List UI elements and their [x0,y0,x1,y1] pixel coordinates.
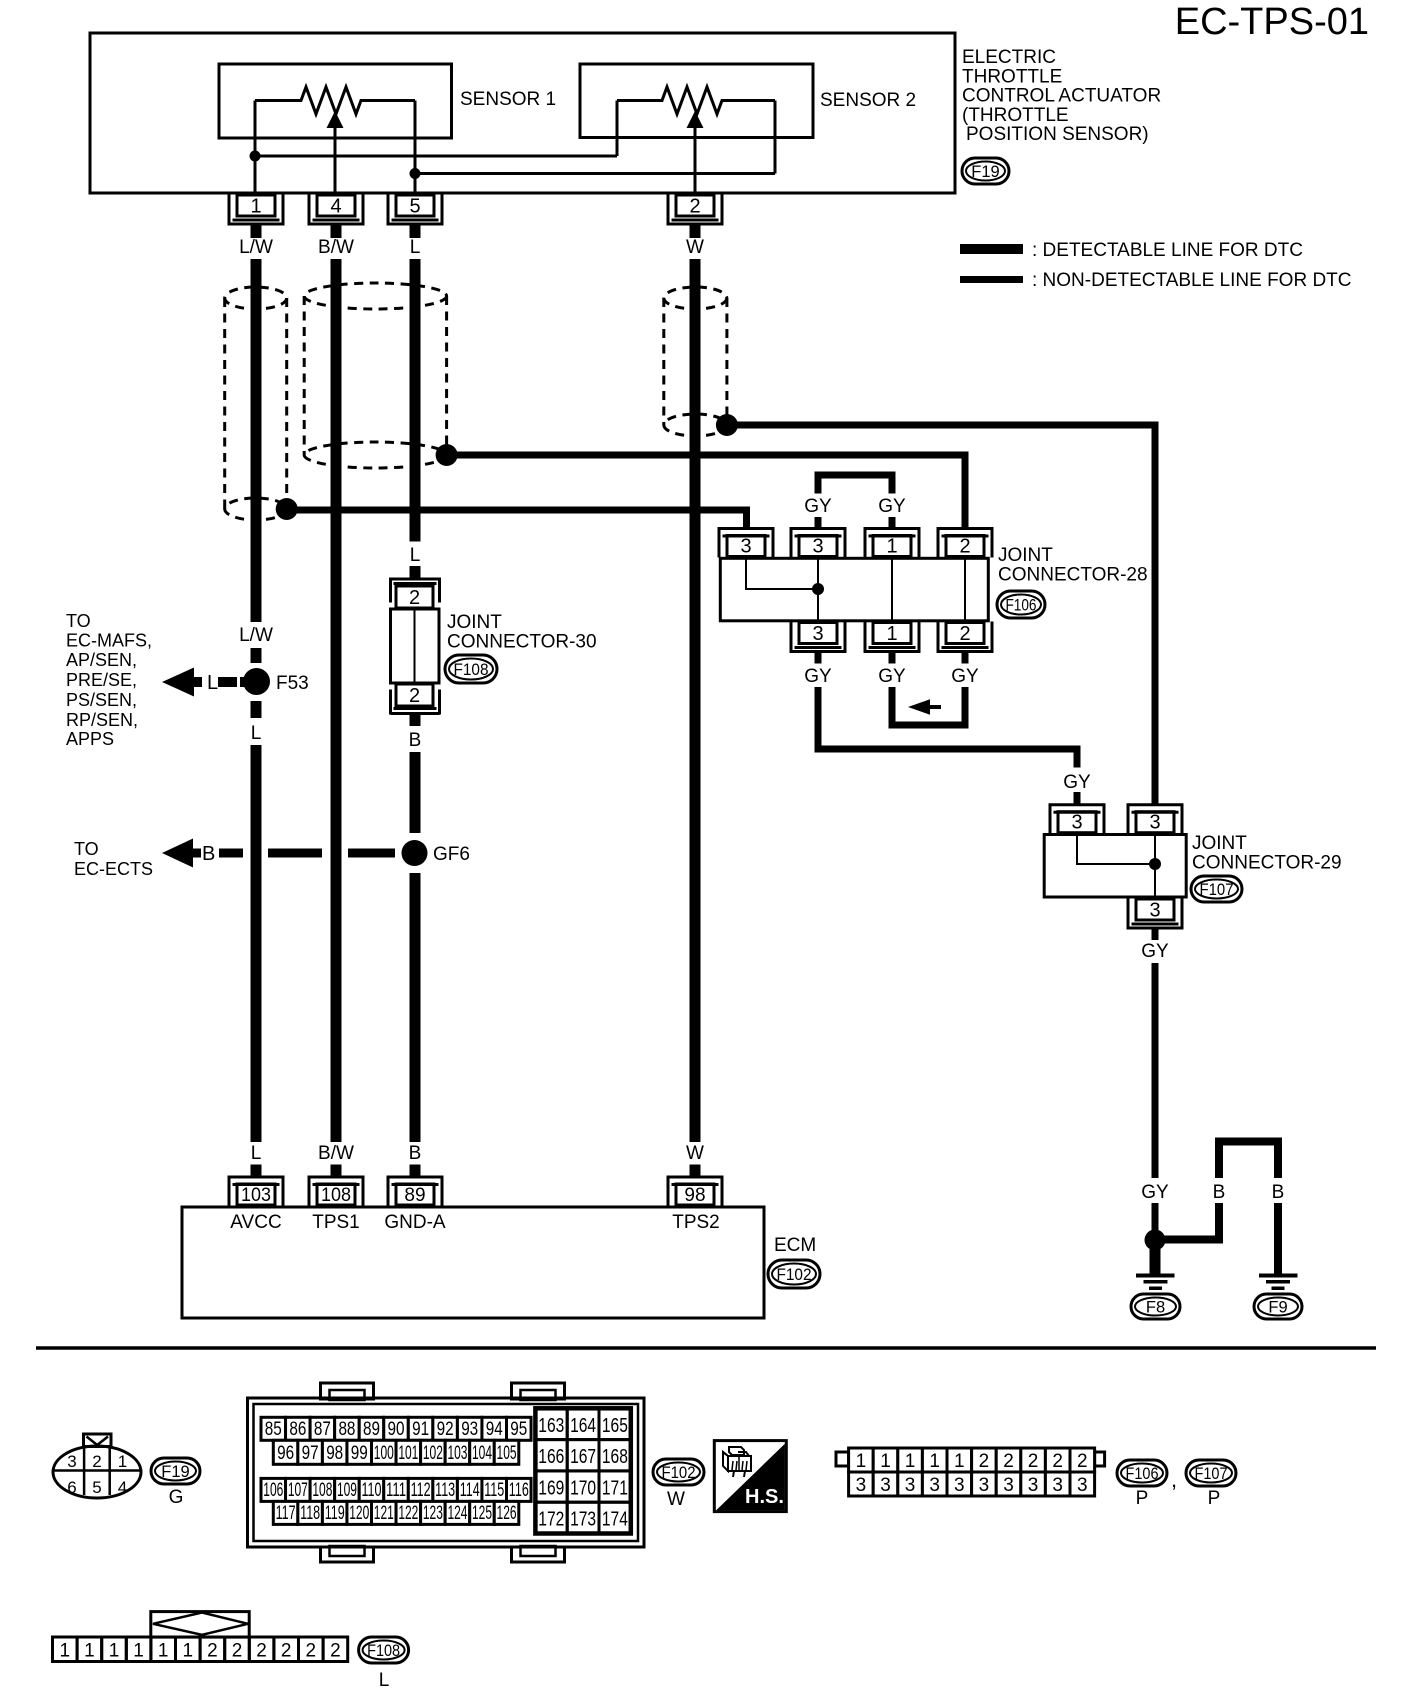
node shield1 drain [276,498,298,520]
wire GY JC-29 to ground label [1152,963,1159,1178]
svg-text:3: 3 [812,536,823,558]
stub JC-28 bottom pin2 [962,651,969,664]
connector badge F108 [445,655,497,683]
svg-text:1: 1 [158,1641,169,1662]
svg-text:2: 2 [689,196,700,218]
svg-text:170: 170 [570,1477,596,1499]
svg-text:3: 3 [856,1475,867,1496]
svg-text:GY: GY [878,496,906,517]
connector badge F102 at ECM [768,1260,820,1288]
connector badge F107 [1191,876,1242,902]
svg-text:85: 85 [265,1419,282,1440]
svg-text:91: 91 [412,1419,429,1440]
svg-text:GY: GY [804,666,832,687]
svg-text:W: W [686,237,704,258]
svg-text:3: 3 [880,1475,891,1496]
svg-text:GY: GY [1141,1182,1169,1203]
pin 2 (actuator) [676,195,714,216]
svg-text:165: 165 [602,1415,628,1437]
svg-text:3: 3 [1052,1475,1063,1496]
shield cylinder 2 (B/W and L wires) [304,283,446,309]
ECM pin 108 [317,1184,355,1205]
svg-text:F102: F102 [662,1464,696,1482]
svg-text:3: 3 [954,1475,965,1496]
svg-text:1: 1 [905,1451,916,1472]
JC-28 top pin 3 [799,536,837,557]
svg-text:B: B [409,730,422,751]
svg-text:2: 2 [1028,1451,1039,1472]
svg-text:118: 118 [300,1503,320,1524]
badge F19 bottom [151,1458,200,1484]
svg-text:103: 103 [241,1185,271,1206]
GY loop below JC-28 pins 1-2 [892,687,965,725]
sensor2 right lead wire [774,101,777,174]
ECM pin 103 [237,1184,275,1205]
node ground junction [1145,1230,1166,1251]
wire shield1 drain to JC-28 pin3 [287,510,747,529]
JC-28 top pin 3 (shield1) [727,536,765,557]
pin 5 (actuator) [396,195,434,216]
svg-text:174: 174 [602,1509,628,1531]
svg-text:87: 87 [314,1419,331,1440]
svg-text:2: 2 [979,1451,990,1472]
sensor 1 box [219,64,452,138]
badge F102 bottom [653,1459,704,1485]
wire sensor1-pin1 to sensor2 left [255,155,617,158]
svg-text:F107: F107 [1200,881,1234,899]
svg-text:L: L [410,237,421,258]
svg-text:171: 171 [602,1477,628,1499]
svg-text:86: 86 [289,1419,306,1440]
svg-text:H.S.: H.S. [745,1486,784,1508]
wire B/W pin4 to ECM [331,259,342,1142]
svg-text:166: 166 [538,1446,564,1468]
svg-text:JOINT: JOINT [447,612,502,633]
connector face F102 (ECM, W) [248,1398,645,1547]
resistor R-sensor2 [617,87,775,114]
svg-text:EC-TPS-01: EC-TPS-01 [1175,1,1369,43]
svg-text:2: 2 [1003,1451,1014,1472]
svg-text:105: 105 [497,1443,517,1464]
svg-text:2: 2 [306,1641,317,1662]
svg-text:GND-A: GND-A [384,1212,446,1233]
svg-text:124: 124 [447,1503,467,1524]
svg-text:115: 115 [484,1480,504,1501]
electric throttle control actuator box U1 (F19) [90,33,955,193]
svg-text:98: 98 [326,1443,343,1464]
svg-text:1: 1 [84,1641,95,1662]
svg-text:94: 94 [486,1419,503,1440]
pin 4 (actuator) [317,195,355,216]
JC-30 bottom pin 2 [396,684,433,706]
svg-text:167: 167 [570,1446,596,1468]
svg-text:97: 97 [302,1443,319,1464]
node GF6 [402,840,428,866]
wire L to ECM [251,745,262,1142]
JC-29 right pin 3 [1136,812,1174,833]
svg-text:2: 2 [1052,1451,1063,1472]
svg-text:SENSOR 2: SENSOR 2 [820,90,916,111]
svg-text:3: 3 [979,1475,990,1496]
svg-text:163: 163 [538,1415,564,1437]
stub JC-28 bottom pin1 [889,651,896,664]
legend detectable bar [960,244,1023,254]
svg-text:F106: F106 [1126,1465,1159,1483]
ground badge F9 [1254,1294,1302,1319]
svg-text:3: 3 [1003,1475,1014,1496]
ground F8 [1136,1274,1175,1278]
node sensor1 pin1 junction [250,151,261,162]
node F53 [243,668,270,695]
svg-text:1: 1 [118,1452,127,1471]
svg-text:103: 103 [447,1443,467,1464]
sensor1 left lead wire [254,101,257,196]
svg-text:P: P [1208,1488,1221,1509]
svg-text:F106: F106 [1006,596,1037,614]
svg-text:1: 1 [183,1641,194,1662]
svg-text:RP/SEN,: RP/SEN, [66,710,138,730]
stub JC-29 left pin [1074,792,1081,805]
shield cylinder 1 (L/W wire) [225,287,287,309]
node JC-28 internal joint [812,583,824,595]
svg-text:126: 126 [497,1503,517,1524]
wire L/W below label [251,648,262,663]
svg-text:1: 1 [250,196,261,218]
svg-text:2: 2 [281,1641,292,1662]
svg-text:119: 119 [325,1503,345,1524]
svg-text:99: 99 [351,1443,368,1464]
svg-text:122: 122 [398,1503,418,1524]
svg-text:3: 3 [1077,1475,1088,1496]
svg-text:L: L [379,1670,390,1691]
wire JC-28 pin3 to JC-29 left pin [818,687,1077,768]
svg-text:108: 108 [321,1185,351,1206]
svg-text:L: L [410,545,421,566]
node shield2 drain [436,444,458,466]
svg-text:90: 90 [388,1419,405,1440]
svg-text:113: 113 [435,1480,455,1501]
svg-text:F19: F19 [971,163,999,181]
svg-text:ECM: ECM [774,1235,816,1256]
wire GY to ground node [1152,1203,1159,1233]
svg-text:5: 5 [409,196,420,218]
svg-text:EC-MAFS,: EC-MAFS, [66,631,152,651]
svg-text:96: 96 [277,1443,294,1464]
svg-text:123: 123 [423,1503,443,1524]
JC-30 top pin 2 [396,586,433,608]
JC-28 bottom pin 3 [799,623,837,644]
svg-text:P: P [1136,1488,1149,1509]
svg-text:109: 109 [337,1480,357,1501]
stub JC-28 bottom pin3 [815,651,822,664]
svg-text:JOINT: JOINT [1192,833,1247,854]
svg-text:114: 114 [460,1480,480,1501]
svg-text:169: 169 [538,1477,564,1499]
svg-text:EC-ECTS: EC-ECTS [74,859,153,879]
wire W pin2 to ECM [690,259,701,1142]
svg-text:PS/SEN,: PS/SEN, [66,690,137,710]
wire shield2 drain to JC-28 pin2 [447,455,965,529]
JC-28 body (F106) [720,558,988,621]
svg-text:TO: TO [74,839,99,859]
svg-text:POSITION SENSOR): POSITION SENSOR) [966,124,1149,145]
JC-30 body (F108) [391,609,440,683]
node JC-29 internal joint [1149,858,1161,870]
svg-text:B/W: B/W [318,237,354,258]
svg-text:2: 2 [1077,1451,1088,1472]
arrow to EC-MAFS etc [162,668,194,697]
wire sensor1-pin5 to sensor2 right [415,172,775,175]
node shield3 drain [716,414,738,436]
svg-text:F53: F53 [276,673,309,694]
svg-text:2: 2 [959,623,970,645]
JC-29 body (F107) [1044,835,1186,898]
badge F106 bottom [1117,1460,1167,1486]
shield cylinder 3 (W wire) [664,287,727,309]
svg-text:172: 172 [538,1509,564,1531]
svg-text:JOINT: JOINT [998,545,1053,566]
svg-text:1: 1 [886,536,897,558]
svg-text:F8: F8 [1146,1298,1165,1316]
svg-text:: DETECTABLE LINE FOR DTC: : DETECTABLE LINE FOR DTC [1032,240,1303,261]
stub below JC-30 [410,715,421,726]
svg-text:168: 168 [602,1446,628,1468]
JC-29 bottom pin 3 [1136,899,1174,920]
svg-text:5: 5 [92,1478,101,1497]
wire L/W segment pin1 to F53 label [251,259,262,622]
svg-text:AVCC: AVCC [230,1212,281,1233]
svg-text:3: 3 [1149,900,1160,922]
svg-text:W: W [686,1143,704,1164]
svg-text:3: 3 [1028,1475,1039,1496]
arrow on GY loop [908,699,930,714]
svg-text:110: 110 [362,1480,382,1501]
svg-text:3: 3 [929,1475,940,1496]
svg-text:164: 164 [570,1415,596,1437]
svg-text:F9: F9 [1268,1298,1287,1316]
svg-text:1: 1 [856,1451,867,1472]
svg-text:101: 101 [398,1443,418,1464]
svg-text:GY: GY [1063,772,1091,793]
ground F9 [1259,1274,1298,1278]
badge F108 bottom [359,1637,409,1663]
svg-text:GY: GY [804,496,832,517]
svg-text:THROTTLE: THROTTLE [962,66,1062,87]
stub above JC-30 [410,566,421,578]
svg-text:F19: F19 [161,1463,189,1481]
svg-text:B: B [202,843,215,865]
stub JC-28 top pin3 [815,517,822,530]
svg-text:3: 3 [1149,812,1160,834]
svg-text:120: 120 [349,1503,369,1524]
separator line [36,1346,1376,1350]
svg-text:G: G [169,1487,184,1508]
svg-text:GY: GY [1141,941,1169,962]
svg-text:(THROTTLE: (THROTTLE [962,105,1069,126]
svg-text:AP/SEN,: AP/SEN, [66,650,137,670]
svg-text:6: 6 [67,1478,76,1497]
svg-text:112: 112 [411,1480,431,1501]
svg-text:106: 106 [263,1480,283,1501]
svg-text:L: L [251,723,262,744]
svg-text:APPS: APPS [66,729,114,749]
svg-text:SENSOR 1: SENSOR 1 [460,89,556,110]
svg-text:2: 2 [409,587,420,609]
badge F107 bottom [1186,1460,1236,1486]
H.S. icon [714,1441,786,1512]
svg-text:CONTROL ACTUATOR: CONTROL ACTUATOR [962,86,1161,107]
svg-text:102: 102 [423,1443,443,1464]
svg-text:PRE/SE,: PRE/SE, [66,670,137,690]
svg-text:92: 92 [437,1419,454,1440]
svg-text:107: 107 [288,1480,308,1501]
svg-text:95: 95 [510,1419,527,1440]
legend non-detectable bar [960,276,1023,283]
svg-text:2: 2 [256,1641,267,1662]
stub JC-29 bottom pin [1152,928,1159,941]
svg-text:B: B [1272,1182,1285,1203]
svg-text:L/W: L/W [239,625,273,646]
wire shield3 drain to JC-29 right pin [727,425,1155,805]
wire B JC-30 to GF6 [410,752,421,833]
svg-text:2: 2 [207,1641,218,1662]
svg-text:ELECTRIC: ELECTRIC [962,47,1056,68]
wire L below F53 [251,701,262,718]
svg-text:3: 3 [67,1452,76,1471]
connector face F19 (G) [53,1446,141,1498]
svg-text:108: 108 [312,1480,332,1501]
JC-28 bottom pin 2 [946,623,984,644]
svg-text:CONNECTOR-28: CONNECTOR-28 [998,565,1148,586]
arrow to EC-ECTS [162,839,193,868]
svg-text:B/W: B/W [318,1143,354,1164]
svg-text:3: 3 [740,536,751,558]
svg-text:2: 2 [232,1641,243,1662]
svg-text:111: 111 [386,1480,406,1501]
sensor1 right lead wire [414,101,417,196]
svg-text:2: 2 [330,1641,341,1662]
wiper arrow sensor 1 [334,126,337,195]
svg-text:F108: F108 [367,1642,400,1660]
svg-text:1: 1 [929,1451,940,1472]
svg-text:,: , [1171,1467,1177,1492]
svg-text:B: B [409,1143,422,1164]
svg-text:4: 4 [118,1478,127,1497]
svg-text:L: L [207,672,218,694]
ground badge F8 [1131,1294,1180,1319]
connector face F108 (L) [151,1612,249,1638]
svg-text:TPS1: TPS1 [312,1212,360,1233]
connector badge F106 [997,591,1045,618]
wire L pin5 to JC-30 [410,259,421,542]
svg-text:1: 1 [886,623,897,645]
svg-text:4: 4 [330,196,341,218]
dashed link to GF6 [219,849,243,858]
svg-text:117: 117 [276,1503,296,1524]
node sensor1 pin5 junction [410,168,421,179]
svg-text:3: 3 [1071,812,1082,834]
svg-text:GY: GY [878,666,906,687]
svg-text:: NON-DETECTABLE LINE FOR DTC: : NON-DETECTABLE LINE FOR DTC [1032,270,1352,291]
svg-text:121: 121 [374,1503,394,1524]
connector face F106/F107 (P) [836,1452,849,1466]
svg-text:GF6: GF6 [433,844,470,865]
ECM pin 89 [396,1184,434,1205]
sensor2 left lead wire [616,101,619,157]
svg-text:89: 89 [363,1419,380,1440]
wire B GF6 to ECM [410,873,421,1142]
wire B bridge to F9 [1161,1203,1219,1240]
svg-text:116: 116 [509,1480,529,1501]
svg-text:F102: F102 [777,1266,812,1284]
svg-text:1: 1 [880,1451,891,1472]
svg-text:89: 89 [404,1185,425,1206]
dashed link to F53 [218,677,237,687]
connector badge F19 [962,158,1009,184]
svg-text:F108: F108 [454,661,489,679]
JC-28 top pin 1 [873,536,911,557]
svg-text:98: 98 [684,1185,705,1206]
svg-text:2: 2 [959,536,970,558]
svg-text:1: 1 [133,1641,144,1662]
svg-text:F107: F107 [1195,1465,1228,1483]
wiper arrow sensor 2 [694,126,697,195]
svg-text:3: 3 [905,1475,916,1496]
svg-text:L/W: L/W [239,237,273,258]
JC-29 left pin 3 [1058,812,1096,833]
wire node to ground F8 [1150,1246,1161,1274]
svg-text:3: 3 [812,623,823,645]
pin 1 (actuator) [237,195,275,216]
sensor 2 box [580,64,813,138]
svg-text:173: 173 [570,1509,596,1531]
svg-text:TO: TO [66,611,91,631]
svg-text:1: 1 [954,1451,965,1472]
svg-text:100: 100 [374,1443,394,1464]
JC-28 bottom pin 1 [873,623,911,644]
ECM pin 98 [676,1184,714,1205]
ECM box (F102) [182,1207,764,1318]
svg-text:TPS2: TPS2 [672,1212,720,1233]
svg-text:125: 125 [472,1503,492,1524]
svg-text:1: 1 [109,1641,120,1662]
svg-text:W: W [667,1489,685,1510]
svg-text:104: 104 [472,1443,492,1464]
svg-text:CONNECTOR-30: CONNECTOR-30 [447,632,597,653]
JC-28 top pin 2 [946,536,984,557]
svg-text:GY: GY [951,666,979,687]
svg-text:CONNECTOR-29: CONNECTOR-29 [1192,853,1342,874]
svg-text:2: 2 [409,685,420,707]
svg-text:88: 88 [338,1419,355,1440]
svg-text:B: B [1213,1182,1226,1203]
resistor R-sensor1 [255,87,415,114]
svg-text:1: 1 [60,1641,71,1662]
svg-text:L: L [251,1143,262,1164]
GY bridge above JC-28 [818,475,892,494]
svg-text:93: 93 [461,1419,478,1440]
stub JC-28 top pin1 [889,517,896,530]
svg-text:2: 2 [92,1452,101,1471]
